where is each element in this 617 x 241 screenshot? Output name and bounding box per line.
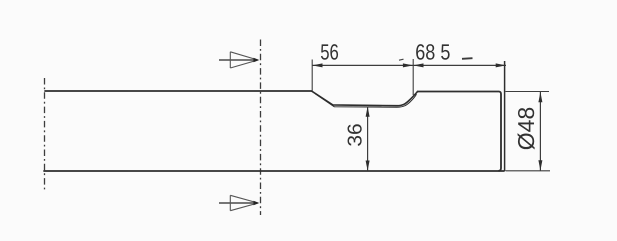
svg-text:36: 36 [345,123,367,146]
svg-text:56: 56 [320,40,339,65]
svg-text:Ø48: Ø48 [513,107,539,150]
svg-text:68 5: 68 5 [415,40,450,65]
